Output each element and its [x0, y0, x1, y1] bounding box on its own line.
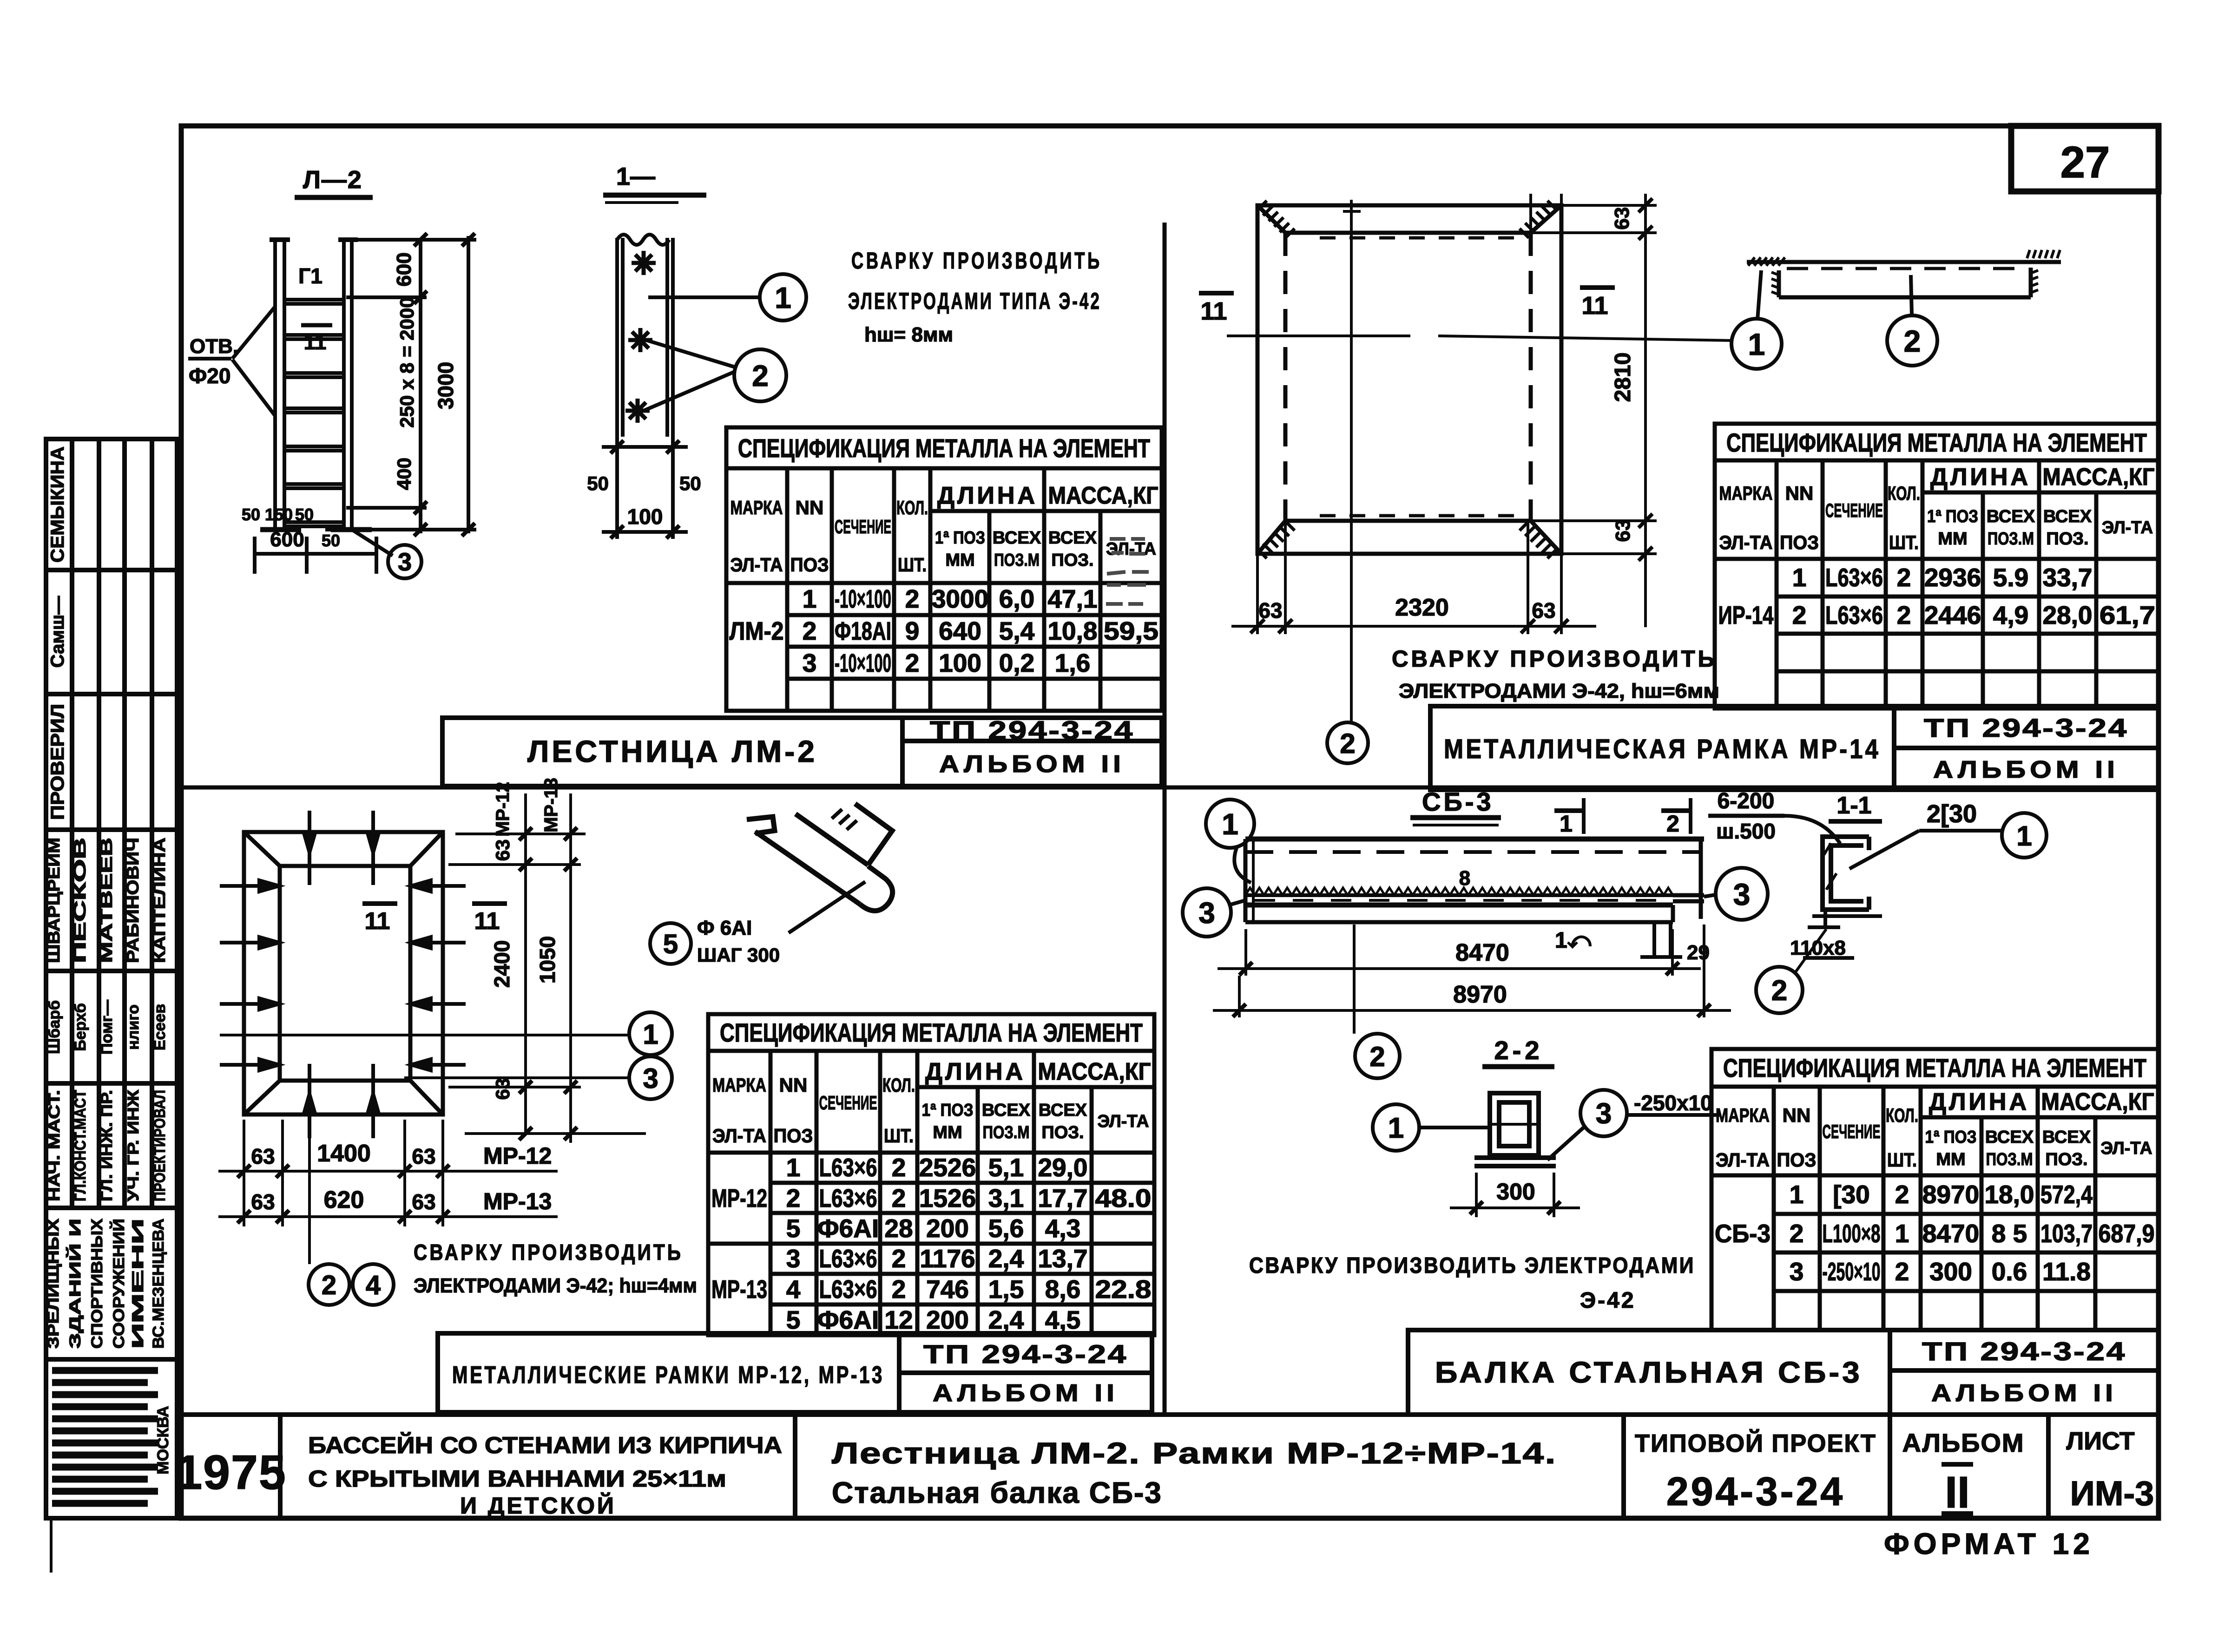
svg-text:ШТ.: ШТ.	[1889, 531, 1919, 553]
svg-text:hш= 8мм: hш= 8мм	[864, 323, 953, 346]
svg-text:СПЕЦИФИКАЦИЯ МЕТАЛЛА НА ЭЛЕМ: СПЕЦИФИКАЦИЯ МЕТАЛЛА НА ЭЛЕМЕНТ	[738, 433, 1150, 463]
svg-text:12: 12	[884, 1305, 913, 1334]
svg-text:Л—2: Л—2	[303, 166, 362, 194]
svg-text:Ф6АI: Ф6АI	[817, 1214, 879, 1243]
svg-text:ЛИСТ: ЛИСТ	[2066, 1427, 2134, 1455]
svg-text:ЭЛ-ТА: ЭЛ-ТА	[1719, 531, 1773, 553]
svg-text:3: 3	[1198, 896, 1215, 930]
svg-text:640: 640	[939, 616, 981, 645]
svg-text:NN: NN	[1785, 482, 1814, 504]
svg-text:МАССА,КГ: МАССА,КГ	[1038, 1058, 1151, 1085]
svg-text:1176: 1176	[920, 1244, 975, 1273]
svg-text:СООРУЖЕНИЙ: СООРУЖЕНИЙ	[110, 1219, 128, 1349]
svg-text:МОСКВА: МОСКВА	[154, 1406, 172, 1475]
svg-text:3000: 3000	[434, 362, 458, 409]
svg-text:Э-42: Э-42	[1580, 1288, 1636, 1313]
svg-text:4: 4	[786, 1275, 801, 1304]
svg-text:ММ: ММ	[933, 1123, 962, 1142]
svg-text:Есеев: Есеев	[151, 1004, 169, 1050]
svg-text:СЕЧЕНИЕ: СЕЧЕНИЕ	[835, 516, 891, 538]
svg-text:ПОЗ: ПОЗ	[1777, 1149, 1817, 1171]
svg-text:СЕЧЕНИЕ: СЕЧЕНИЕ	[1825, 499, 1883, 521]
svg-text:Самш—: Самш—	[47, 596, 68, 668]
svg-text:СВАРКУ ПРОИЗВОДИТЬ: СВАРКУ ПРОИЗВОДИТЬ	[1392, 646, 1717, 672]
svg-text:ЛМ-2: ЛМ-2	[730, 616, 784, 645]
svg-text:1: 1	[1895, 1219, 1909, 1248]
svg-text:-250х10: -250х10	[1634, 1091, 1712, 1115]
svg-text:2: 2	[1792, 601, 1807, 629]
svg-text:2: 2	[905, 584, 920, 613]
svg-text:9: 9	[905, 616, 920, 645]
svg-text:ВСЕХ: ВСЕХ	[982, 1101, 1031, 1120]
svg-text:Шбарб: Шбарб	[46, 1000, 63, 1054]
svg-text:Берхб: Берхб	[72, 1003, 89, 1051]
svg-text:L63×6: L63×6	[819, 1184, 877, 1213]
svg-text:2,4: 2,4	[988, 1305, 1024, 1334]
svg-text:ММ: ММ	[945, 551, 974, 570]
svg-text:ПОЗ: ПОЗ	[1780, 531, 1819, 553]
svg-text:2: 2	[1897, 601, 1911, 629]
svg-text:ЛЕСТНИЦА ЛМ-2: ЛЕСТНИЦА ЛМ-2	[527, 734, 817, 768]
svg-text:4,5: 4,5	[1045, 1305, 1080, 1334]
svg-text:L63×6: L63×6	[819, 1275, 877, 1304]
svg-text:II: II	[1945, 1468, 1969, 1517]
svg-text:2: 2	[892, 1153, 906, 1182]
svg-text:ЭЛ-ТА: ЭЛ-ТА	[1716, 1149, 1770, 1171]
svg-text:1ª ПОЗ: 1ª ПОЗ	[922, 1101, 974, 1120]
svg-text:63: 63	[412, 1144, 435, 1168]
svg-text:ЭЛ-ТА: ЭЛ-ТА	[2102, 518, 2153, 538]
svg-text:L63×6: L63×6	[819, 1153, 877, 1182]
svg-text:63: 63	[251, 1190, 275, 1214]
svg-text:2: 2	[1666, 811, 1679, 837]
svg-text:ДЛИНА: ДЛИНА	[1929, 1088, 2029, 1115]
svg-text:УЧ. ГР. ИНЖ: УЧ. ГР. ИНЖ	[125, 1090, 142, 1201]
svg-text:ВСЕХ: ВСЕХ	[2042, 1128, 2091, 1147]
svg-text:ПОЗ: ПОЗ	[774, 1125, 813, 1147]
svg-text:ПОЗ.М: ПОЗ.М	[994, 551, 1040, 570]
svg-text:ЭЛЕКТРОДАМИ Э-42, hш=6мм: ЭЛЕКТРОДАМИ Э-42, hш=6мм	[1399, 680, 1719, 702]
svg-text:ЭЛ-ТА: ЭЛ-ТА	[731, 554, 783, 576]
svg-text:11.8: 11.8	[2042, 1257, 2091, 1286]
svg-text:11: 11	[365, 908, 390, 935]
svg-text:2-2: 2-2	[1494, 1036, 1543, 1065]
svg-text:ЗРЕЛИЩНЫХ: ЗРЕЛИЩНЫХ	[45, 1219, 62, 1349]
svg-text:1: 1	[2016, 820, 2032, 852]
svg-text:3: 3	[1790, 1257, 1804, 1286]
svg-text:КАПТЕЛИНА: КАПТЕЛИНА	[150, 838, 169, 963]
svg-text:ш.500: ш.500	[1716, 819, 1776, 843]
svg-text:3: 3	[1733, 877, 1751, 911]
svg-text:NN: NN	[779, 1074, 808, 1096]
svg-text:КОЛ.: КОЛ.	[896, 497, 928, 518]
svg-text:2: 2	[905, 649, 920, 677]
svg-text:ШТ.: ШТ.	[898, 554, 927, 576]
svg-text:63: 63	[1611, 207, 1633, 230]
svg-text:2: 2	[1771, 975, 1787, 1007]
svg-text:ВСЕХ: ВСЕХ	[1987, 507, 2035, 526]
svg-text:5: 5	[786, 1305, 801, 1334]
svg-text:200: 200	[926, 1214, 969, 1243]
svg-text:600: 600	[393, 252, 415, 286]
svg-text:ШТ.: ШТ.	[1887, 1149, 1917, 1171]
svg-text:6,0: 6,0	[999, 584, 1034, 613]
svg-text:1: 1	[1560, 811, 1573, 837]
svg-text:ВСЕХ: ВСЕХ	[1039, 1101, 1087, 1120]
svg-text:5.9: 5.9	[1993, 563, 2028, 592]
svg-text:3: 3	[643, 1063, 658, 1094]
svg-text:2: 2	[1340, 728, 1355, 759]
svg-text:27: 27	[2060, 138, 2110, 187]
svg-text:17,7: 17,7	[1038, 1184, 1087, 1213]
svg-text:50: 50	[242, 505, 260, 524]
svg-text:6-200: 6-200	[1718, 789, 1775, 813]
svg-text:29: 29	[1687, 941, 1710, 964]
svg-text:МР-13: МР-13	[483, 1188, 552, 1214]
svg-text:ВСЕХ: ВСЕХ	[2043, 507, 2092, 526]
svg-text:АЛЬБОМ II: АЛЬБОМ II	[939, 751, 1125, 778]
svg-text:СЕЧЕНИЕ: СЕЧЕНИЕ	[819, 1092, 877, 1114]
svg-text:МАССА,КГ: МАССА,КГ	[1048, 482, 1158, 509]
svg-text:2: 2	[803, 616, 817, 645]
svg-text:СПЕЦИФИКАЦИЯ МЕТАЛЛА НА ЭЛЕМ: СПЕЦИФИКАЦИЯ МЕТАЛЛА НА ЭЛЕМЕНТ	[720, 1018, 1143, 1047]
svg-text:НАЧ. МАСТ.: НАЧ. МАСТ.	[46, 1090, 63, 1201]
svg-text:ММ: ММ	[1936, 1150, 1965, 1169]
svg-text:1: 1	[1748, 327, 1765, 361]
svg-text:8 5: 8 5	[1992, 1219, 2027, 1248]
svg-text:L100×8: L100×8	[1823, 1219, 1881, 1248]
svg-text:АЛЬБОМ II: АЛЬБОМ II	[1931, 1380, 2117, 1407]
svg-text:АЛЬБОМ: АЛЬБОМ	[1902, 1428, 2024, 1457]
svg-text:МР-12: МР-12	[711, 1184, 767, 1213]
svg-text:1400: 1400	[317, 1140, 371, 1167]
svg-text:ПОЗ.: ПОЗ.	[2046, 529, 2088, 549]
svg-text:ПЕСКОВ: ПЕСКОВ	[70, 838, 89, 963]
svg-text:ГЛ. ИНЖ. ПР.: ГЛ. ИНЖ. ПР.	[98, 1090, 116, 1201]
svg-text:2[30: 2[30	[1927, 800, 1977, 828]
svg-text:МАРКА: МАРКА	[712, 1074, 766, 1096]
svg-text:Лестница ЛМ-2. Рамки МР-12÷МР-: Лестница ЛМ-2. Рамки МР-12÷МР-14.	[832, 1436, 1557, 1470]
svg-text:ПОЗ.М: ПОЗ.М	[983, 1123, 1030, 1142]
svg-text:МР-13: МР-13	[541, 778, 561, 833]
svg-text:ШАГ 300: ШАГ 300	[697, 944, 780, 966]
svg-text:11: 11	[1200, 297, 1227, 325]
svg-text:СВАРКУ ПРОИЗВОДИТЬ ЭЛЕКТРОДА: СВАРКУ ПРОИЗВОДИТЬ ЭЛЕКТРОДАМИ	[1249, 1253, 1695, 1278]
svg-text:3: 3	[398, 548, 412, 576]
svg-text:1975: 1975	[175, 1446, 286, 1500]
svg-text:600: 600	[270, 528, 304, 551]
svg-text:ЭЛ-ТА: ЭЛ-ТА	[1106, 539, 1156, 559]
svg-text:ПРОЕКТИРОВАЛ: ПРОЕКТИРОВАЛ	[151, 1090, 169, 1201]
svg-text:СПОРТИВНЫХ: СПОРТИВНЫХ	[88, 1219, 106, 1349]
svg-text:1ª ПОЗ: 1ª ПОЗ	[1925, 1128, 1977, 1147]
svg-text:63: 63	[1612, 519, 1634, 542]
svg-text:2: 2	[1895, 1180, 1909, 1209]
svg-text:ГЛ.КОНСТ.МАСТ: ГЛ.КОНСТ.МАСТ	[72, 1090, 89, 1201]
svg-text:МАССА,КГ: МАССА,КГ	[2041, 1088, 2154, 1115]
svg-text:Ф18АI: Ф18АI	[835, 616, 891, 645]
svg-text:ДЛИНА: ДЛИНА	[937, 482, 1038, 509]
svg-text:8470: 8470	[1455, 939, 1509, 966]
svg-text:1: 1	[1792, 563, 1807, 592]
svg-text:АЛЬБОМ II: АЛЬБОМ II	[933, 1380, 1119, 1407]
svg-text:2: 2	[1790, 1219, 1804, 1248]
svg-text:L63×6: L63×6	[1825, 563, 1883, 592]
svg-text:5: 5	[663, 929, 678, 959]
svg-text:687,9: 687,9	[2099, 1219, 2155, 1248]
svg-text:100: 100	[939, 649, 981, 677]
svg-text:100: 100	[627, 505, 663, 529]
svg-text:Ф 6АI: Ф 6АI	[697, 917, 752, 939]
svg-text:ПОЗ.М: ПОЗ.М	[1988, 529, 2034, 549]
svg-text:L63×6: L63×6	[819, 1244, 877, 1273]
svg-text:1-1: 1-1	[1836, 792, 1871, 819]
svg-text:[30: [30	[1833, 1180, 1870, 1209]
svg-text:8470: 8470	[1922, 1219, 1979, 1248]
svg-text:29,0: 29,0	[1038, 1153, 1087, 1182]
svg-text:48.0: 48.0	[1095, 1184, 1152, 1213]
svg-text:ЗДАНИЙ И: ЗДАНИЙ И	[66, 1219, 84, 1349]
svg-text:СБ-3: СБ-3	[1422, 787, 1494, 816]
svg-text:ДЛИНА: ДЛИНА	[925, 1058, 1026, 1085]
svg-text:2810: 2810	[1611, 353, 1635, 402]
svg-text:ДЛИНА: ДЛИНА	[1930, 464, 2031, 491]
svg-text:Ф20: Ф20	[189, 364, 230, 388]
svg-text:ПРОВЕРИЛ: ПРОВЕРИЛ	[47, 704, 68, 820]
svg-text:1⤺: 1⤺	[1555, 928, 1592, 953]
svg-text:4,9: 4,9	[1993, 601, 2028, 629]
svg-text:МАРКА: МАРКА	[1719, 482, 1773, 504]
svg-text:ПОЗ.М: ПОЗ.М	[1986, 1150, 2033, 1169]
svg-text:СВАРКУ ПРОИЗВОДИТЬ: СВАРКУ ПРОИЗВОДИТЬ	[414, 1240, 683, 1265]
svg-text:Помг—: Помг—	[98, 1000, 116, 1055]
svg-text:300: 300	[1496, 1179, 1535, 1205]
svg-text:2: 2	[786, 1184, 801, 1213]
svg-text:2936: 2936	[1924, 563, 1981, 592]
svg-text:СБ-3: СБ-3	[1715, 1219, 1770, 1248]
svg-text:БАССЕЙН СО СТЕНАМИ ИЗ КИРПИЧА: БАССЕЙН СО СТЕНАМИ ИЗ КИРПИЧА	[308, 1432, 782, 1458]
svg-text:4: 4	[366, 1270, 381, 1300]
svg-text:СПЕЦИФИКАЦИЯ МЕТАЛЛА НА ЭЛЕМ: СПЕЦИФИКАЦИЯ МЕТАЛЛА НА ЭЛЕМЕНТ	[1723, 1053, 2146, 1082]
svg-text:5: 5	[786, 1214, 801, 1243]
svg-text:-250×10: -250×10	[1823, 1257, 1881, 1286]
svg-text:И ДЕТСКОЙ: И ДЕТСКОЙ	[460, 1492, 616, 1519]
svg-text:2,4: 2,4	[988, 1244, 1024, 1273]
svg-text:11: 11	[474, 908, 500, 935]
svg-text:47,1: 47,1	[1047, 584, 1097, 613]
svg-text:ШВАРЦРЕЙМ: ШВАРЦРЕЙМ	[44, 838, 63, 963]
svg-text:ПОЗ: ПОЗ	[790, 554, 829, 576]
svg-text:8,6: 8,6	[1045, 1275, 1080, 1304]
svg-text:63: 63	[492, 1078, 513, 1100]
svg-text:59,5: 59,5	[1104, 616, 1158, 645]
svg-text:L63×6: L63×6	[1825, 601, 1883, 629]
svg-text:1: 1	[1388, 1112, 1404, 1144]
svg-text:33,7: 33,7	[2042, 563, 2092, 592]
svg-text:28: 28	[884, 1214, 913, 1243]
svg-text:8970: 8970	[1453, 981, 1507, 1008]
svg-text:ТП 294-3-24: ТП 294-3-24	[930, 715, 1134, 745]
svg-text:294-3-24: 294-3-24	[1666, 1469, 1845, 1514]
svg-text:1ª ПОЗ: 1ª ПОЗ	[1927, 507, 1978, 526]
svg-text:4,3: 4,3	[1045, 1214, 1080, 1243]
svg-text:3: 3	[786, 1244, 801, 1273]
svg-text:2: 2	[1904, 324, 1921, 358]
svg-text:103,7: 103,7	[2040, 1219, 2093, 1248]
svg-text:1526: 1526	[919, 1184, 976, 1213]
svg-text:АЛЬБОМ II: АЛЬБОМ II	[1933, 756, 2119, 783]
svg-text:Стальная балка СБ-3: Стальная балка СБ-3	[832, 1476, 1162, 1509]
svg-text:ВСЕХ: ВСЕХ	[1985, 1128, 2034, 1147]
svg-text:3: 3	[803, 649, 817, 677]
svg-text:2446: 2446	[1924, 601, 1981, 629]
svg-text:МЕТАЛЛИЧЕСКИЕ РАМКИ МР-12, МР-: МЕТАЛЛИЧЕСКИЕ РАМКИ МР-12, МР-13	[452, 1362, 884, 1389]
svg-text:8970: 8970	[1922, 1180, 1979, 1209]
svg-text:746: 746	[926, 1275, 969, 1304]
svg-text:РАБИНОВИЧ: РАБИНОВИЧ	[123, 838, 142, 963]
svg-text:2400: 2400	[490, 940, 514, 988]
svg-text:ИМ-3: ИМ-3	[2070, 1474, 2154, 1513]
svg-text:22.8: 22.8	[1095, 1275, 1152, 1304]
svg-text:МАРКА: МАРКА	[731, 497, 783, 518]
svg-text:МАССА,КГ: МАССА,КГ	[2043, 464, 2155, 491]
svg-text:КОЛ.: КОЛ.	[1888, 482, 1920, 504]
svg-text:572,4: 572,4	[2040, 1180, 2093, 1209]
svg-text:1: 1	[1790, 1180, 1804, 1209]
svg-text:МР-12: МР-12	[483, 1143, 552, 1169]
svg-text:2: 2	[322, 1270, 336, 1300]
svg-text:28,0: 28,0	[2042, 601, 2092, 629]
svg-text:ЭЛЕКТРОДАМИ ТИПА Э-42: ЭЛЕКТРОДАМИ ТИПА Э-42	[848, 288, 1101, 314]
svg-text:ТП 294-3-24: ТП 294-3-24	[923, 1339, 1128, 1369]
svg-text:ИМЕНИ: ИМЕНИ	[129, 1219, 147, 1349]
svg-text:1: 1	[643, 1019, 658, 1050]
svg-text:63: 63	[412, 1190, 435, 1214]
svg-text:11: 11	[1581, 292, 1608, 320]
svg-text:10,8: 10,8	[1047, 616, 1097, 645]
svg-text:ОТВ.: ОТВ.	[190, 335, 238, 358]
svg-text:ТП 294-3-24: ТП 294-3-24	[1922, 1337, 2126, 1366]
svg-text:С КРЫТЫМИ ВАННАМИ 25×11м: С КРЫТЫМИ ВАННАМИ 25×11м	[308, 1466, 726, 1492]
svg-text:2: 2	[1895, 1257, 1909, 1286]
svg-text:ВСЕХ: ВСЕХ	[1048, 528, 1097, 548]
svg-text:5,1: 5,1	[988, 1153, 1024, 1182]
svg-text:ПОЗ.: ПОЗ.	[1041, 1123, 1084, 1142]
svg-text:ПОЗ.: ПОЗ.	[2045, 1150, 2087, 1169]
svg-text:Г1: Г1	[298, 264, 322, 288]
svg-text:2: 2	[892, 1275, 906, 1304]
svg-text:МАРКА: МАРКА	[1716, 1104, 1770, 1126]
svg-text:ВС.МЕЗЕНЦЕВА: ВС.МЕЗЕНЦЕВА	[150, 1219, 167, 1349]
svg-text:ЭЛЕКТРОДАМИ Э-42; hш=4мм: ЭЛЕКТРОДАМИ Э-42; hш=4мм	[414, 1274, 697, 1297]
svg-text:2: 2	[892, 1184, 906, 1213]
svg-text:2320: 2320	[1395, 594, 1449, 621]
svg-text:1—: 1—	[616, 163, 655, 190]
svg-text:1: 1	[803, 584, 817, 613]
svg-text:ЭЛ-ТА: ЭЛ-ТА	[712, 1125, 766, 1147]
svg-text:ЭЛ-ТА: ЭЛ-ТА	[1098, 1112, 1149, 1131]
svg-text:0,2: 0,2	[999, 649, 1034, 677]
svg-text:ПОЗ.: ПОЗ.	[1051, 551, 1093, 570]
svg-text:нлиго: нлиго	[125, 1004, 142, 1050]
svg-text:63: 63	[1532, 598, 1555, 623]
svg-text:2: 2	[892, 1244, 906, 1273]
svg-text:50: 50	[679, 472, 701, 494]
svg-text:11: 11	[304, 330, 327, 354]
svg-text:2526: 2526	[919, 1153, 976, 1182]
svg-text:1050: 1050	[535, 936, 559, 983]
svg-text:NN: NN	[796, 497, 824, 518]
svg-text:3: 3	[1596, 1098, 1612, 1130]
svg-text:2: 2	[1369, 1041, 1385, 1072]
svg-text:50: 50	[587, 472, 609, 494]
svg-text:5,4: 5,4	[999, 616, 1035, 645]
svg-text:50: 50	[322, 531, 340, 550]
svg-text:61,7: 61,7	[2100, 601, 2155, 629]
svg-text:2: 2	[1897, 563, 1911, 592]
svg-text:ВСЕХ: ВСЕХ	[993, 528, 1041, 548]
svg-text:63: 63	[492, 839, 513, 861]
svg-text:13,7: 13,7	[1038, 1244, 1087, 1273]
svg-text:-10×100: -10×100	[835, 649, 891, 677]
svg-text:1,5: 1,5	[988, 1275, 1024, 1304]
svg-text:0.6: 0.6	[1992, 1257, 2027, 1286]
svg-text:МР-13: МР-13	[711, 1275, 767, 1304]
svg-text:400: 400	[393, 458, 415, 490]
svg-text:150: 150	[265, 505, 293, 524]
svg-text:СЕМЫКИНА: СЕМЫКИНА	[47, 446, 68, 563]
svg-text:КОЛ.: КОЛ.	[1886, 1104, 1918, 1126]
svg-text:250 х 8 = 2000: 250 х 8 = 2000	[396, 297, 418, 427]
svg-text:БАЛКА СТАЛЬНАЯ СБ-3: БАЛКА СТАЛЬНАЯ СБ-3	[1435, 1356, 1863, 1389]
svg-text:ШТ.: ШТ.	[884, 1125, 914, 1147]
svg-text:ИР-14: ИР-14	[1718, 601, 1774, 629]
svg-text:-10×100: -10×100	[835, 584, 891, 613]
svg-text:ТИПОВОЙ ПРОЕКТ: ТИПОВОЙ ПРОЕКТ	[1635, 1429, 1876, 1457]
svg-text:300: 300	[1929, 1257, 1972, 1286]
svg-text:МЕТАЛЛИЧЕСКАЯ РАМКА МР-14: МЕТАЛЛИЧЕСКАЯ РАМКА МР-14	[1444, 734, 1881, 764]
svg-text:Ф6АI: Ф6АI	[817, 1305, 879, 1334]
svg-text:1: 1	[775, 281, 791, 315]
svg-text:8: 8	[1459, 867, 1470, 890]
svg-text:200: 200	[926, 1305, 969, 1334]
svg-text:СПЕЦИФИКАЦИЯ МЕТАЛЛА НА ЭЛЕМ: СПЕЦИФИКАЦИЯ МЕТАЛЛА НА ЭЛЕМЕНТ	[1726, 428, 2147, 457]
svg-text:МР-12: МР-12	[493, 782, 513, 837]
svg-text:ТП 294-3-24: ТП 294-3-24	[1924, 713, 2128, 742]
svg-text:СЕЧЕНИЕ: СЕЧЕНИЕ	[1823, 1121, 1881, 1142]
svg-text:5,6: 5,6	[988, 1214, 1024, 1243]
svg-text:2: 2	[752, 359, 769, 393]
svg-text:ММ: ММ	[1938, 529, 1967, 549]
svg-text:КОЛ.: КОЛ.	[882, 1074, 915, 1096]
svg-text:50: 50	[295, 505, 314, 524]
svg-text:18,0: 18,0	[1984, 1180, 2034, 1209]
svg-text:63: 63	[1258, 598, 1282, 623]
svg-text:ФОРМАТ 12: ФОРМАТ 12	[1884, 1527, 2094, 1560]
svg-text:1ª ПОЗ: 1ª ПОЗ	[935, 528, 985, 548]
svg-text:3000: 3000	[932, 584, 988, 613]
svg-text:ЭЛ-ТА: ЭЛ-ТА	[2101, 1139, 2152, 1158]
svg-text:3,1: 3,1	[988, 1184, 1024, 1213]
svg-text:МАТВЕЕВ: МАТВЕЕВ	[97, 838, 116, 963]
svg-text:1: 1	[786, 1153, 801, 1182]
svg-text:1: 1	[1222, 807, 1238, 841]
svg-text:1,6: 1,6	[1055, 649, 1090, 677]
svg-text:63: 63	[251, 1144, 275, 1168]
svg-text:620: 620	[324, 1187, 364, 1213]
svg-text:СВАРКУ ПРОИЗВОДИТЬ: СВАРКУ ПРОИЗВОДИТЬ	[851, 248, 1102, 274]
svg-text:NN: NN	[1783, 1104, 1811, 1126]
